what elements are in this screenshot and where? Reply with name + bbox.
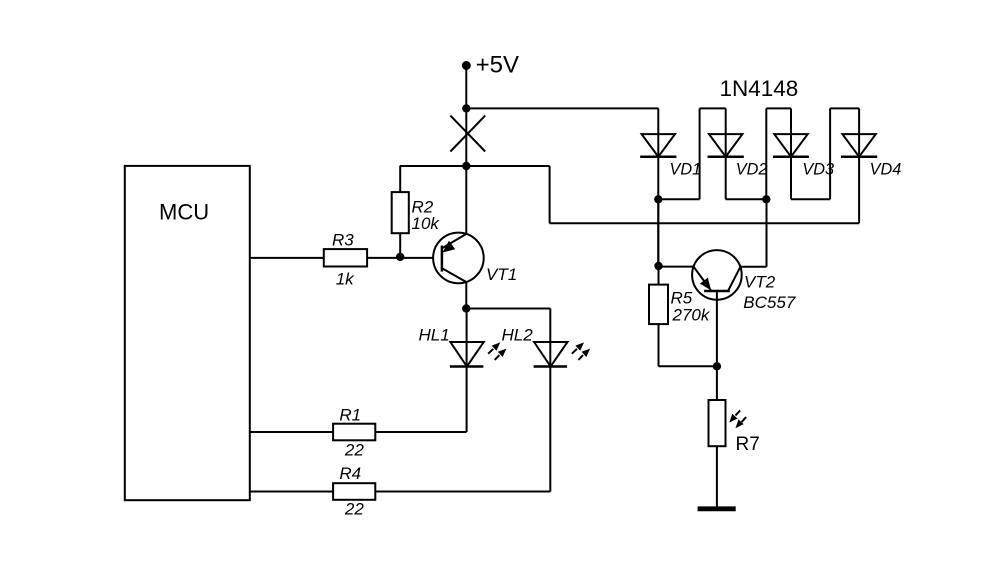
MCU box	[125, 166, 250, 500]
wire node to R2 top and right corner	[400, 165, 550, 167]
resistor R3	[250, 249, 442, 266]
svg-text:VD1: VD1	[670, 161, 702, 179]
ground	[698, 506, 736, 511]
svg-text:VT1: VT1	[486, 265, 517, 284]
svg-text:22: 22	[344, 500, 364, 519]
diode VD2	[708, 108, 744, 199]
svg-text:1k: 1k	[336, 270, 355, 289]
svg-text:HL1: HL1	[419, 325, 450, 344]
wire VD1 cathode to riser	[658, 198, 699, 200]
node VD1 cathode	[654, 195, 662, 203]
svg-text:R4: R4	[339, 464, 361, 483]
resistor R5	[649, 266, 717, 366]
node VD2/VD3/VT2 collector	[762, 195, 770, 203]
svg-text:VD2: VD2	[736, 161, 768, 179]
wire top to VD2	[700, 107, 726, 109]
svg-text:VD4: VD4	[870, 161, 902, 179]
wire long bottom return to VD4 cathode	[550, 222, 860, 224]
wire top to VD4	[830, 107, 859, 109]
wire riser up to VD3	[765, 108, 767, 199]
diode VD1	[640, 108, 676, 266]
LED HL2	[534, 309, 591, 492]
diode VD3	[773, 108, 809, 199]
svg-text:270k: 270k	[672, 306, 711, 325]
wire VD2 cathode to node	[726, 198, 767, 200]
svg-text:22: 22	[344, 441, 364, 460]
svg-text:10k: 10k	[412, 214, 441, 233]
svg-text:R1: R1	[339, 406, 361, 425]
node below X	[462, 162, 470, 170]
transistor VT1	[433, 166, 484, 309]
svg-text:MCU: MCU	[159, 200, 209, 225]
wire top rail to VD1 anode	[466, 107, 658, 109]
node junction top rail	[462, 104, 470, 112]
diode VD4	[841, 108, 877, 223]
resistor R4	[250, 483, 551, 500]
svg-text:R3: R3	[332, 230, 354, 249]
node +5V terminal dot	[462, 61, 471, 70]
node R5 top / VT2 emitter	[654, 262, 662, 270]
wire riser up	[699, 108, 701, 199]
broken-link X mark	[450, 116, 485, 152]
node R2/R3/VT1 base	[396, 253, 404, 261]
svg-text:VT2: VT2	[744, 272, 776, 291]
wire +5V down to top rail	[465, 66, 467, 109]
resistor R2	[392, 166, 409, 257]
node R5 bottom / VT2 base / R7	[713, 362, 721, 370]
wire VD1 node down to VT2 emitter node	[657, 199, 659, 266]
svg-text:1N4148: 1N4148	[720, 76, 799, 101]
wire riser up to VD4	[829, 108, 831, 199]
wire to HL2 branch	[466, 308, 550, 310]
svg-text:R7: R7	[736, 434, 760, 455]
wire node to VT2 emitter	[659, 266, 694, 268]
transistor VT2	[692, 199, 766, 366]
resistor R1	[250, 424, 467, 441]
photoresistor R7	[709, 366, 747, 506]
wire VD3 cathode right	[791, 198, 830, 200]
svg-text:+5V: +5V	[476, 52, 519, 79]
svg-text:HL2: HL2	[502, 325, 534, 344]
wire right corner down	[549, 166, 551, 223]
wire top to VD3	[766, 107, 791, 109]
node VT1 collector / HL split	[462, 304, 470, 312]
wire vertical through X	[465, 108, 467, 166]
LED HL1	[450, 309, 507, 433]
svg-text:BC557: BC557	[743, 293, 796, 312]
